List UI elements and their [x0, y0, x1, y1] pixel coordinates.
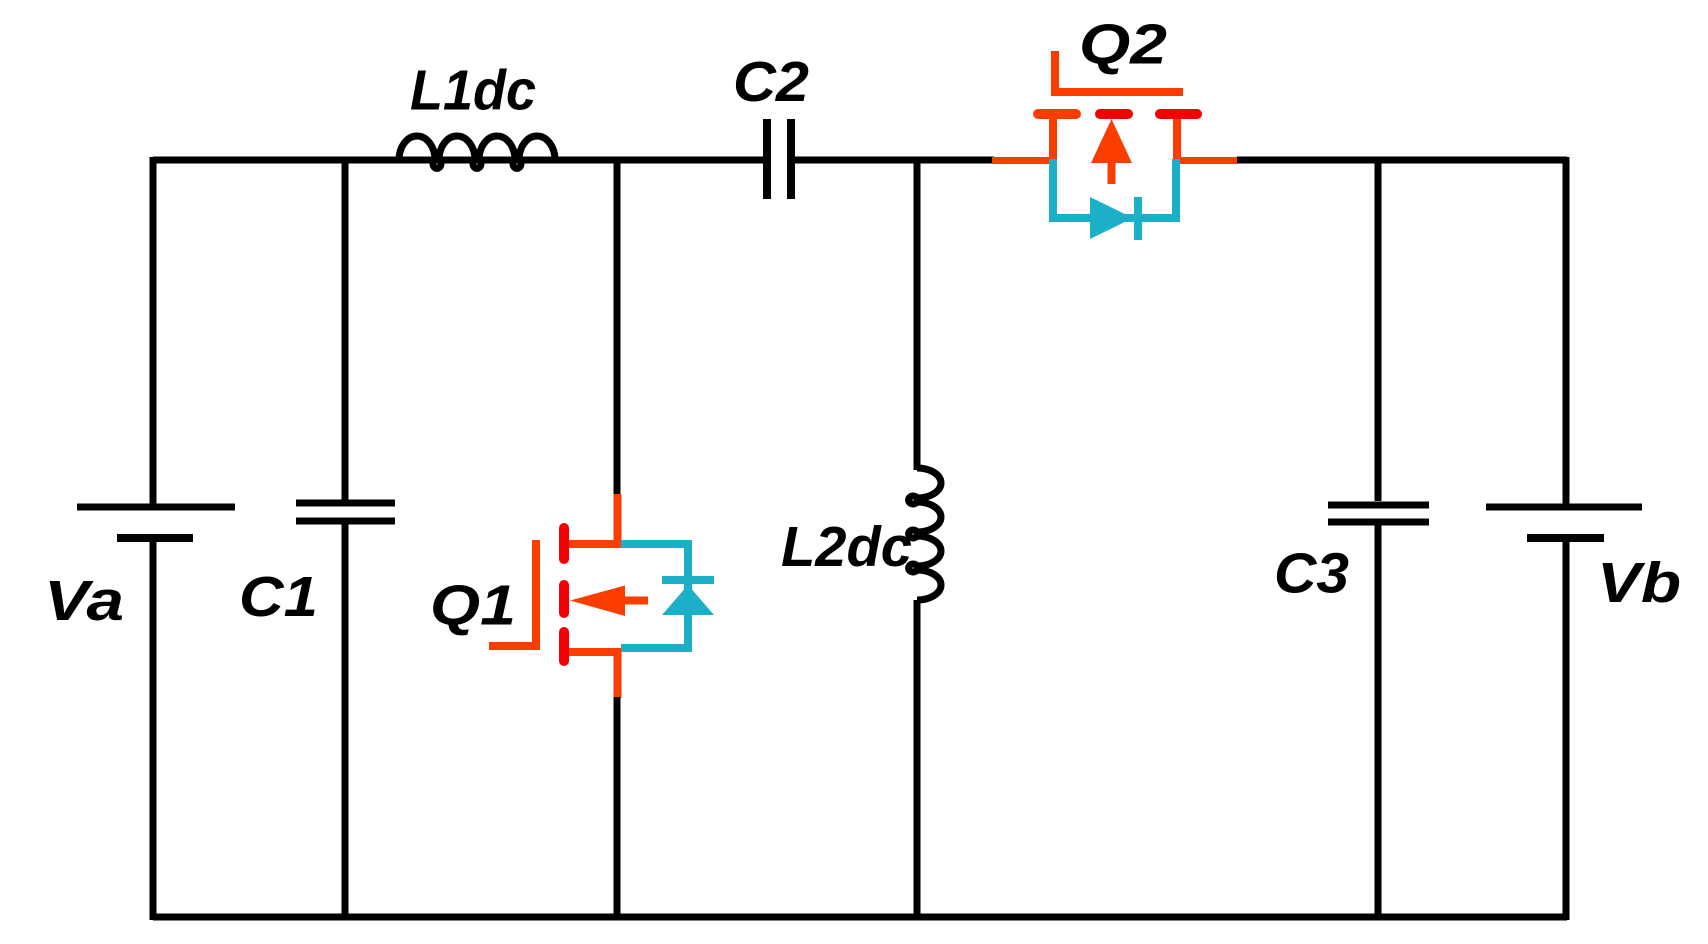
- diode D1 cathode bar: [662, 576, 714, 584]
- battery Va: [77, 507, 235, 538]
- wire C3 vertical lower: [1375, 522, 1382, 920]
- inductor L1dc: [399, 136, 555, 168]
- transistor Q1 drain lead: [564, 540, 621, 548]
- svg-text:C2: C2: [733, 50, 809, 114]
- transistor Q2 channel dash 2: [1100, 109, 1128, 119]
- transistor Q2 drain lead vertical: [1049, 114, 1057, 163]
- transistor Q2 source lead vertical: [1173, 114, 1181, 163]
- wire Q2 source lead horizontal (orange): [1176, 157, 1237, 164]
- wire left vertical upper (top rail to Va +): [150, 157, 157, 504]
- diode D2 loop (Q2 body diode wiring): [1053, 159, 1176, 218]
- capacitor C3: [1328, 505, 1429, 522]
- transistor Q2 body arrow head: [1091, 119, 1132, 163]
- svg-text:Va: Va: [44, 569, 124, 633]
- diode D2 cathode bar: [1134, 197, 1142, 240]
- wire L2dc vertical lower: [914, 600, 921, 920]
- diode D2 triangle: [1090, 197, 1133, 239]
- capacitor C1: [296, 503, 395, 521]
- transistor Q1 channel dash 3: [559, 632, 569, 661]
- wire Q2 drain lead horizontal (orange): [992, 157, 1050, 164]
- transistor Q1 gate: [489, 540, 536, 646]
- wire right vertical upper (top rail to Vb +): [1563, 157, 1570, 504]
- transistor Q2 body arrow shaft: [1108, 162, 1116, 184]
- wire Q1 drain stub (orange): [614, 494, 622, 547]
- wire Q1 vertical lower (source to bottom rail): [614, 697, 621, 920]
- svg-text:C1: C1: [239, 565, 318, 629]
- wire C3 vertical upper: [1375, 157, 1382, 501]
- transistor Q1 source lead: [564, 648, 621, 656]
- transistor Q2 channel dash 3: [1160, 109, 1197, 119]
- wire top left horizontal (Va node to C2 left plate): [153, 157, 764, 164]
- transistor Q1 body arrow shaft: [622, 597, 648, 605]
- wire top right horizontal (Q2 to Vb node): [1237, 157, 1567, 164]
- capacitor C2: [767, 119, 791, 199]
- wire Q1 vertical upper (top rail to Q1 drain): [614, 157, 621, 496]
- wire C1 vertical upper: [342, 157, 349, 500]
- wire L2dc vertical upper: [914, 157, 921, 470]
- svg-text:L2dc: L2dc: [781, 515, 912, 579]
- transistor Q1 channel dash 2: [559, 585, 569, 613]
- transistor Q2 channel dash 1: [1038, 109, 1076, 119]
- svg-text:Vb: Vb: [1597, 551, 1681, 615]
- svg-text:Q2: Q2: [1079, 13, 1167, 77]
- wire bottom horizontal rail: [153, 914, 1567, 921]
- transistor Q2 gate: [1055, 51, 1183, 92]
- svg-text:L1dc: L1dc: [410, 59, 536, 123]
- wire C1 vertical lower: [342, 521, 349, 920]
- diode D1 loop (Q1 body diode wiring): [621, 544, 688, 648]
- transistor Q1 body arrow head: [570, 586, 625, 617]
- wire top middle horizontal (C2 right plate to Q2 drain, black part): [794, 157, 994, 164]
- wire right vertical lower (Vb - to bottom rail): [1563, 538, 1570, 920]
- inductor L2dc: [909, 468, 941, 600]
- transistor Q1 channel dash 1: [559, 528, 569, 559]
- wire left vertical lower (Va - to bottom rail): [150, 538, 157, 920]
- diode D1 triangle: [662, 585, 714, 615]
- svg-text:Q1: Q1: [430, 574, 516, 638]
- svg-text:C3: C3: [1274, 542, 1349, 606]
- wire Q1 source stub (orange): [614, 649, 622, 698]
- battery Vb: [1486, 507, 1642, 538]
